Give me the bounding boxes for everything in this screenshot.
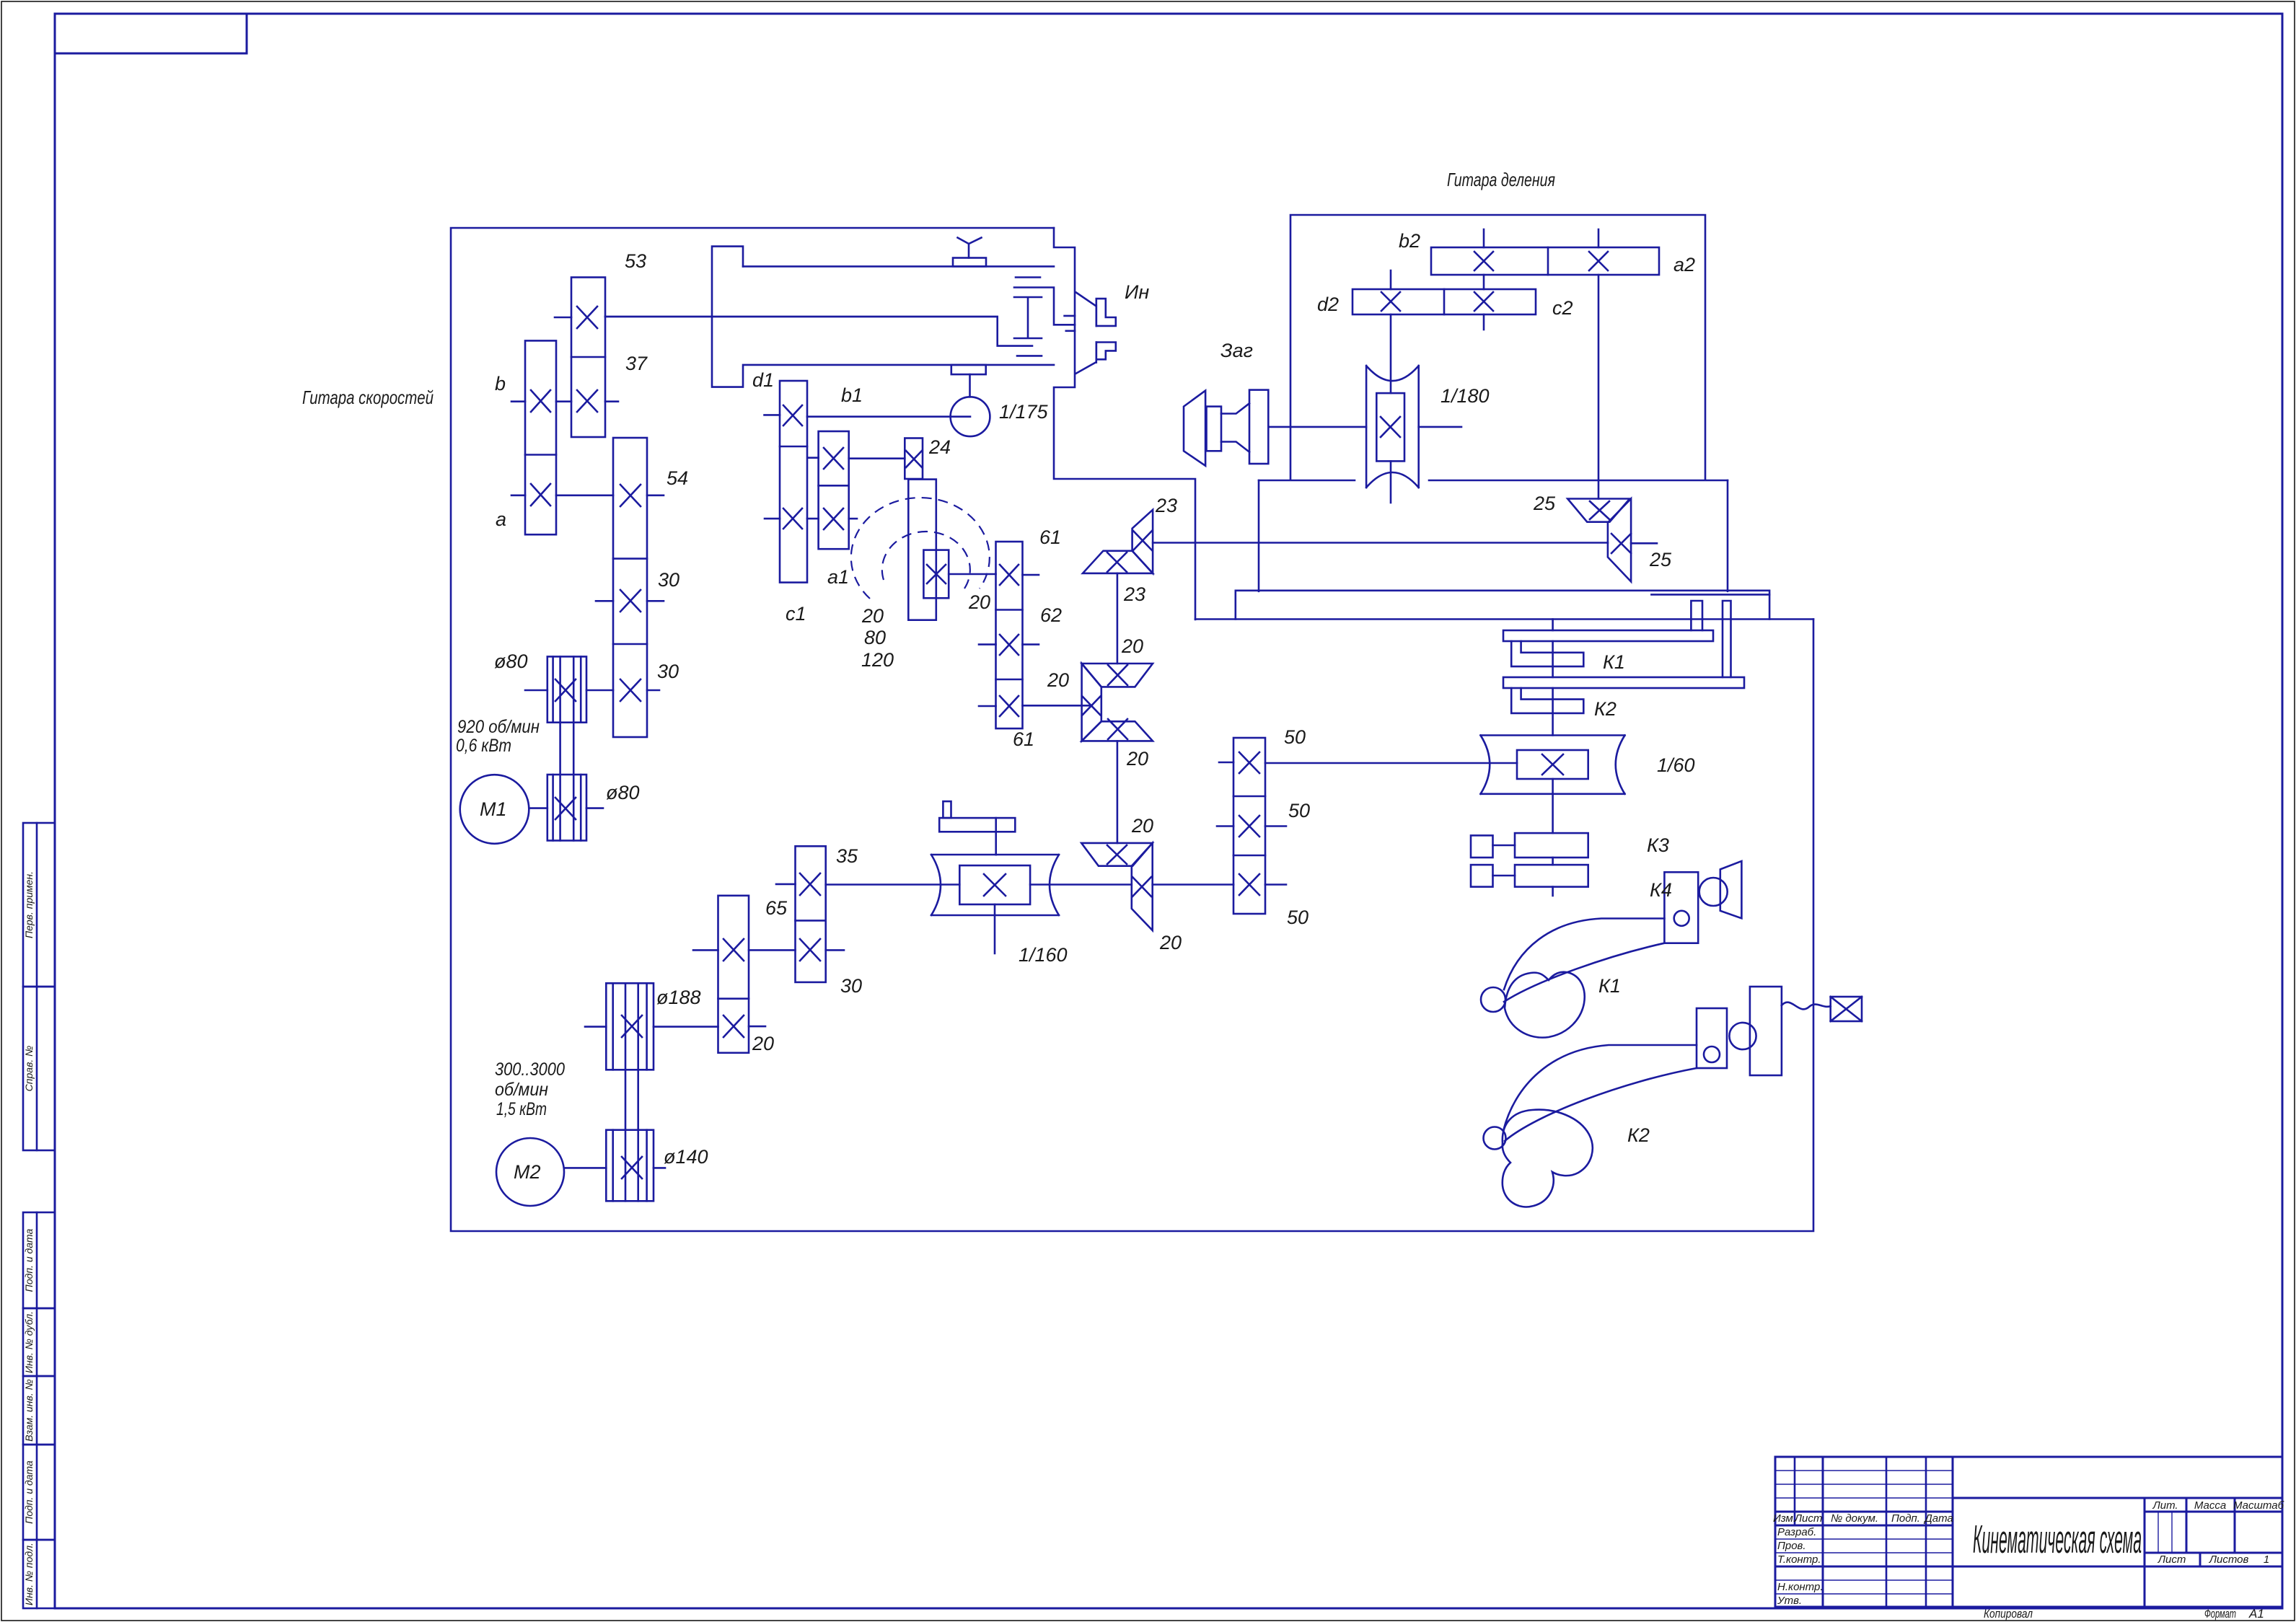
clutch K4	[1471, 865, 1493, 887]
worm gear 1/180 wheel	[1366, 366, 1419, 488]
shaft stubs 54/30/30	[647, 494, 664, 496]
svg-text:920 об/мин: 920 об/мин	[457, 717, 540, 737]
cam K2 pivot	[1484, 1127, 1506, 1150]
shaft K3-K4	[1552, 858, 1554, 896]
shaft a2 down to bevel 25	[1598, 275, 1600, 499]
side graph box Инв. № дубл.	[23, 1308, 55, 1376]
side graph box Подп. и дата (2)	[23, 1445, 55, 1540]
swing arm under 24	[908, 480, 936, 620]
svg-text:К4: К4	[1650, 879, 1672, 901]
table top plate	[1236, 591, 1769, 620]
svg-text:61: 61	[1039, 526, 1061, 548]
bevel cluster 20/20/20: upper trapezoid	[1082, 664, 1153, 687]
tachometer drive 1/175 circle	[951, 397, 990, 436]
gear 61b X	[1000, 696, 1019, 716]
svg-text:35: 35	[836, 845, 858, 867]
svg-text:62: 62	[1040, 604, 1062, 626]
svg-text:Формат: Формат	[2204, 1607, 2236, 1621]
worm 1/180 shaft below	[1390, 461, 1392, 503]
svg-text:Гитара деления: Гитара деления	[1447, 169, 1555, 190]
cam K1 profile	[1505, 972, 1585, 1038]
table plate second line	[1651, 594, 1769, 596]
svg-text:об/мин: об/мин	[495, 1080, 548, 1100]
clutch K1 bar	[1503, 630, 1713, 641]
gear 53 X	[577, 307, 597, 328]
gear a1 X	[824, 508, 843, 529]
gear c2 X	[1474, 292, 1493, 311]
pulley ф80 lower	[547, 775, 586, 841]
bevel pair 20/20 at worm: vertical	[1132, 843, 1153, 930]
shaft 35 to worm 1/160	[826, 883, 960, 886]
main gearbox enclosure (гитара скоростей box)	[451, 228, 1813, 1231]
svg-text:20: 20	[968, 591, 990, 613]
svg-text:М1: М1	[480, 798, 507, 820]
gear bar d2-c2	[1352, 289, 1536, 314]
svg-text:Пров.: Пров.	[1777, 1540, 1806, 1552]
svg-text:Утв.: Утв.	[1777, 1595, 1802, 1607]
worm 1/180 side shafts	[1419, 426, 1461, 428]
svg-text:ø80: ø80	[606, 782, 640, 803]
svg-text:Инв. № подл.: Инв. № подл.	[23, 1543, 35, 1605]
svg-text:Взам. инв. №: Взам. инв. №	[23, 1379, 35, 1442]
svg-text:54: 54	[667, 467, 688, 489]
svg-text:a: a	[496, 508, 506, 530]
worm 1/180 rect	[1376, 393, 1404, 461]
shaft d1 to 1/175	[807, 415, 970, 418]
gear 30c X	[800, 939, 820, 961]
gear a2 X	[1589, 252, 1608, 270]
gear bar b2-a2	[1431, 247, 1659, 275]
pulley ф188	[606, 983, 654, 1070]
svg-text:М2: М2	[514, 1161, 541, 1183]
gear c1 X	[783, 508, 802, 529]
workpiece right block	[1249, 390, 1268, 464]
gear block 61/62/61	[996, 542, 1023, 728]
belt lines M1 drive	[559, 656, 561, 840]
svg-text:23: 23	[1123, 583, 1145, 605]
cam follower K2: right slider	[1750, 987, 1782, 1075]
svg-text:c1: c1	[786, 603, 806, 625]
svg-text:a2: a2	[1673, 254, 1695, 276]
table pillar 1	[1691, 601, 1702, 630]
svg-text:24: 24	[928, 436, 951, 458]
worm 1/160 rect	[959, 865, 1030, 904]
shifter fork on top shaft	[953, 258, 986, 267]
table rail line	[1195, 618, 1813, 620]
gear b1 X	[824, 448, 843, 469]
svg-text:Масштаб: Масштаб	[2233, 1499, 2284, 1512]
shaft 23-bevel down to 20-bevel cluster	[1117, 573, 1119, 664]
shaft stubs b/a	[511, 400, 525, 402]
svg-text:1/60: 1/60	[1657, 754, 1695, 776]
worm wheel 1/160	[931, 855, 1059, 915]
cam follower K1: pin	[1674, 911, 1689, 926]
svg-text:1/175: 1/175	[999, 401, 1049, 423]
gear 37 X	[577, 390, 597, 412]
gear 50c X	[1239, 874, 1259, 895]
gear 24	[905, 438, 923, 480]
svg-text:53: 53	[625, 250, 646, 272]
svg-text:20: 20	[1159, 932, 1182, 953]
shaft stubs b2 a2 d2 c2	[1483, 229, 1485, 247]
cam follower K1: bracket	[1664, 872, 1698, 943]
shaft stubs gear 53/37	[555, 317, 571, 319]
svg-text:Масса: Масса	[2194, 1499, 2226, 1512]
title block right part lines	[1953, 1497, 2282, 1499]
shaft 65 to 30	[749, 949, 796, 951]
svg-text:Инв. № дубл.: Инв. № дубл.	[23, 1311, 35, 1373]
svg-text:1/180: 1/180	[1441, 385, 1490, 407]
gear d2 X	[1381, 292, 1400, 311]
cam follower K2: roller	[1729, 1023, 1756, 1049]
long shaft 23-bevel to 25-bevel	[1153, 542, 1608, 544]
gear 54 X	[620, 485, 641, 506]
svg-text:120: 120	[861, 649, 894, 671]
chuck cone slants	[1076, 293, 1096, 306]
cam lever K1 curves	[1504, 919, 1664, 990]
svg-text:20: 20	[752, 1033, 774, 1054]
svg-text:65: 65	[765, 897, 788, 919]
svg-text:37: 37	[625, 353, 648, 374]
svg-text:d2: d2	[1317, 294, 1339, 315]
cam lever K2 curves	[1503, 1045, 1697, 1131]
workpiece middle boss	[1207, 407, 1222, 451]
svg-text:№ докум.: № докум.	[1831, 1512, 1878, 1525]
svg-text:Ин: Ин	[1125, 281, 1149, 303]
chuck lower jaw	[1096, 343, 1116, 360]
cam K1 pivot	[1481, 987, 1505, 1012]
svg-text:c2: c2	[1552, 297, 1573, 319]
gear block b1/a1	[819, 431, 849, 549]
stubs 61/62/61	[1023, 574, 1039, 576]
svg-text:Разраб.: Разраб.	[1777, 1526, 1816, 1538]
gear 50b X	[1239, 816, 1259, 837]
enclosure right-top path around headstock/chuck	[1054, 228, 1195, 620]
svg-text:Изм.: Изм.	[1773, 1512, 1796, 1525]
svg-text:1/160: 1/160	[1019, 944, 1068, 966]
shaft gear53 to headstock	[605, 316, 998, 318]
table pillar 2	[1723, 601, 1731, 677]
division guitar box	[1290, 215, 1705, 480]
gear b2 X	[1474, 252, 1493, 270]
svg-text:50: 50	[1288, 800, 1310, 821]
svg-text:Лит.: Лит.	[2152, 1499, 2178, 1512]
shaft gear20 to 61	[949, 573, 995, 576]
svg-text:Листов: Листов	[2209, 1553, 2249, 1566]
gear block d1/c1	[780, 381, 807, 583]
cam follower K1: roller	[1699, 878, 1728, 906]
cam follower K2: pin	[1704, 1046, 1720, 1062]
svg-text:20: 20	[861, 605, 884, 627]
gear block 35/30	[796, 846, 826, 982]
gear block 50/50/50	[1233, 738, 1265, 914]
spindle bearing marks (upper pair)	[1016, 276, 1040, 278]
shaft 61b to bevel 20	[1023, 705, 1092, 707]
svg-text:30: 30	[657, 661, 679, 682]
svg-text:К2: К2	[1594, 698, 1617, 720]
svg-text:20: 20	[1131, 815, 1153, 837]
svg-text:a1: a1	[827, 566, 849, 588]
svg-text:ø140: ø140	[664, 1146, 708, 1168]
gear d1 X	[783, 405, 802, 426]
svg-text:Подп. и дата: Подп. и дата	[23, 1228, 35, 1292]
shifter rect on lower housing line	[951, 365, 986, 374]
svg-text:50: 50	[1284, 726, 1306, 748]
shaft bevel to gear 50 bottom	[1153, 883, 1233, 886]
cam K2 profile	[1503, 1110, 1593, 1207]
gear 61 X	[1000, 565, 1019, 585]
gear block 65/20	[718, 896, 749, 1053]
worm 1/60 rect	[1517, 750, 1588, 779]
gear block 53/37	[571, 278, 605, 438]
chuck upper jaw	[1096, 299, 1116, 326]
svg-text:Т.контр.: Т.контр.	[1777, 1553, 1821, 1566]
workpiece waist	[1221, 403, 1249, 451]
svg-text:d1: d1	[752, 369, 774, 391]
svg-text:К3: К3	[1647, 834, 1669, 856]
gear 50a X	[1239, 752, 1259, 773]
svg-text:50: 50	[1287, 907, 1308, 928]
spindle axis shaft	[605, 317, 1032, 346]
top-left extra graph box	[55, 14, 247, 53]
svg-text:ø188: ø188	[656, 987, 701, 1008]
svg-text:Копировал: Копировал	[1984, 1607, 2033, 1621]
clutch K3	[1471, 835, 1493, 858]
gear 62 X	[1000, 635, 1019, 655]
clutch K2 jaw hook	[1511, 688, 1583, 713]
electric link squiggle	[1782, 1002, 1831, 1010]
gear 20 on swing arm	[923, 550, 949, 599]
clutch K2 bar	[1503, 677, 1744, 688]
svg-text:Подп. и дата: Подп. и дата	[23, 1460, 35, 1524]
pulley ф80 upper stubs	[525, 689, 547, 692]
svg-text:А1: А1	[2248, 1607, 2264, 1621]
svg-text:20: 20	[1047, 669, 1069, 691]
shaft workpiece to worm 1/180	[1268, 426, 1366, 428]
shaft worm 1/160 to bevel 20	[1030, 883, 1132, 886]
lower housing box top edge	[1259, 480, 1728, 482]
belt lines M2 drive	[625, 983, 627, 1201]
headstock stepped housing	[743, 265, 1054, 268]
pulley ф140	[606, 1130, 654, 1202]
gear block 54/30/30	[613, 438, 647, 737]
cam follower K2: bracket	[1697, 1008, 1727, 1068]
workpiece Заг: left cone	[1184, 391, 1205, 466]
side graph box Инв. № подл.	[23, 1540, 55, 1608]
svg-text:300..3000: 300..3000	[495, 1059, 565, 1080]
shaft d2 to worm 1/180	[1390, 314, 1392, 393]
svg-text:Лист: Лист	[1794, 1512, 1823, 1525]
svg-text:0,6 кВт: 0,6 кВт	[456, 736, 511, 756]
gear 20 X	[723, 1015, 744, 1037]
title block column lines left part	[1794, 1457, 1796, 1525]
svg-text:25: 25	[1533, 493, 1556, 514]
vertical clutch shaft	[1552, 620, 1554, 736]
title block outer rect	[1775, 1457, 2282, 1607]
spindle I-symbol	[1014, 297, 1042, 338]
svg-text:20: 20	[1121, 635, 1143, 657]
svg-text:20: 20	[1126, 748, 1148, 770]
limit switch envelope	[1831, 997, 1862, 1021]
dashed swing arc inner	[882, 532, 970, 589]
side graph box Взам. инв. №	[23, 1376, 55, 1445]
dashed swing arc outer	[851, 498, 990, 599]
motor M2	[496, 1138, 564, 1206]
gear 30 X	[620, 590, 641, 612]
svg-text:Лист: Лист	[2158, 1553, 2186, 1566]
svg-text:1,5 кВт: 1,5 кВт	[496, 1099, 547, 1119]
svg-text:Н.контр.: Н.контр.	[1777, 1581, 1824, 1593]
bevel pair 25/25 vertical	[1608, 499, 1631, 582]
svg-text:ø80: ø80	[494, 651, 528, 672]
side graph box Подп. и дата (1)	[23, 1212, 55, 1308]
svg-text:1: 1	[2264, 1553, 2269, 1566]
clutch K1 jaw hook	[1511, 641, 1583, 666]
svg-text:30: 30	[658, 569, 679, 591]
bevel cluster central vertical	[1082, 664, 1101, 741]
svg-text:30: 30	[840, 975, 862, 997]
svg-text:b2: b2	[1399, 230, 1420, 252]
svg-text:Дата: Дата	[1923, 1512, 1953, 1525]
svg-text:Справ. №: Справ. №	[23, 1046, 35, 1092]
shaft b1 to 24	[849, 457, 905, 459]
spindle bearing marks (lower pair)	[1017, 355, 1042, 357]
title block row lines left part	[1775, 1470, 1953, 1471]
svg-text:Подп.: Подп.	[1891, 1512, 1920, 1525]
shaft c1 to a1	[807, 518, 819, 520]
lower housing box sides	[1258, 480, 1260, 591]
svg-text:b1: b1	[841, 384, 863, 406]
cam follower K1: horn	[1720, 861, 1742, 918]
gear b X	[531, 390, 550, 412]
side graph box Перв. примен.	[23, 823, 55, 987]
bevel pair 23/23: vertical	[1132, 510, 1153, 573]
bevel pair 25/25 horizontal	[1567, 499, 1629, 522]
pulley ф80 upper	[547, 656, 586, 722]
shaft bevel cluster down	[1117, 741, 1119, 843]
svg-text:b: b	[495, 373, 506, 395]
bevel cluster lower trapezoid	[1082, 721, 1153, 741]
worm wheel 1/60	[1481, 736, 1625, 794]
svg-text:К1: К1	[1598, 975, 1621, 997]
stubs 50 column	[1219, 762, 1233, 764]
shaft 50a to worm 1/60	[1265, 762, 1517, 764]
shaft a to 54	[556, 494, 613, 496]
gear block b/a	[525, 340, 556, 534]
chuck backplate ticks	[1065, 315, 1075, 317]
svg-text:23: 23	[1155, 495, 1177, 516]
svg-text:К2: К2	[1627, 1124, 1650, 1146]
gear a X	[531, 484, 550, 506]
svg-text:25: 25	[1649, 549, 1672, 570]
worm 1/160 stem below	[994, 904, 996, 953]
side graph box Справ. №	[23, 987, 55, 1150]
svg-text:Кинематическая схема: Кинематическая схема	[1973, 1517, 2142, 1561]
bevel pair 20/20 at worm: horizontal	[1081, 843, 1153, 866]
gear 65 X	[723, 939, 744, 961]
svg-text:Перв. примен.: Перв. примен.	[23, 871, 35, 938]
svg-text:80: 80	[864, 627, 886, 648]
shaft worm 1/60 down to K3	[1552, 779, 1554, 833]
svg-text:Гитара скоростей: Гитара скоростей	[302, 387, 434, 408]
bevel pair 23/23: horizontal	[1083, 551, 1153, 573]
motor M1	[460, 775, 529, 844]
svg-text:61: 61	[1013, 728, 1034, 750]
gear 30b X	[620, 679, 641, 701]
bracket above worm 1/160	[943, 801, 951, 818]
svg-text:Заг: Заг	[1220, 340, 1253, 361]
gear 35 X	[800, 873, 820, 895]
svg-text:К1: К1	[1603, 651, 1625, 673]
